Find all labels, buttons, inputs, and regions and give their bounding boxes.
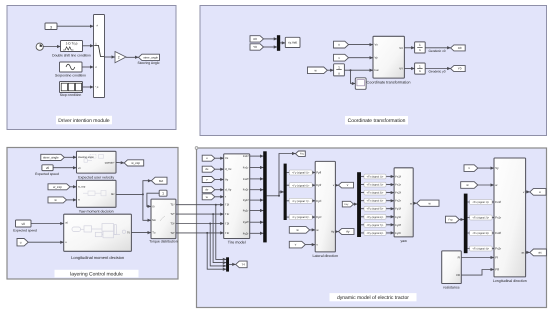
svg-text:T2f: T2f xyxy=(225,222,229,226)
svg-text:Expected speed: Expected speed xyxy=(35,172,59,176)
svg-text:Mz: Mz xyxy=(152,219,156,222)
svg-text:v0: v0 xyxy=(46,166,50,170)
svg-text:<Fy (signal 7)>: <Fy (signal 7)> xyxy=(292,200,310,203)
svg-text:Fyfr: Fyfr xyxy=(316,183,321,187)
svg-text:3: 3 xyxy=(50,26,52,30)
svg-text:steer_angle: steer_angle xyxy=(143,55,158,59)
svg-text:Yaw moment decision: Yaw moment decision xyxy=(79,210,114,214)
svg-text:Fx2f: Fx2f xyxy=(395,191,401,195)
svg-text:Fyfl: Fyfl xyxy=(316,171,321,175)
svg-text:xy.mat: xy.mat xyxy=(288,41,297,45)
svg-text:steer_angle: steer_angle xyxy=(43,156,59,160)
svg-text:Coordinate transformation: Coordinate transformation xyxy=(367,81,411,85)
svg-text:yaw: yaw xyxy=(400,239,407,243)
svg-text:<Fx (signal 4)>: <Fx (signal 4)> xyxy=(472,248,489,251)
svg-text:T4: T4 xyxy=(241,263,245,267)
svg-text:Geodetic x0: Geodetic x0 xyxy=(428,49,445,53)
svg-text:Fy1r: Fy1r xyxy=(243,209,249,213)
svg-text:Expected speed: Expected speed xyxy=(13,229,37,233)
svg-text:Vy: Vy xyxy=(495,166,499,170)
svg-text:MZ: MZ xyxy=(159,179,163,183)
svg-text:Fx1f: Fx1f xyxy=(243,154,249,158)
svg-text:Tu: Tu xyxy=(152,232,156,235)
svg-text:Fy2r: Fy2r xyxy=(395,231,401,235)
svg-text:Fx1r: Fx1r xyxy=(395,183,401,187)
svg-text:Fx1f: Fx1f xyxy=(395,175,401,179)
svg-text:2: 2 xyxy=(118,55,120,59)
svg-text:Coordinate transformation: Coordinate transformation xyxy=(348,118,406,124)
svg-text:Lateral direction: Lateral direction xyxy=(313,254,339,258)
svg-text:T1*: T1* xyxy=(170,204,174,207)
svg-text:d_Vy: d_Vy xyxy=(225,188,232,192)
svg-text:Fxy: Fxy xyxy=(449,218,454,221)
svg-text:w_exp: w_exp xyxy=(78,185,86,188)
svg-text:VX: VX xyxy=(399,46,403,50)
svg-text:<Fy (signal 7)>: <Fy (signal 7)> xyxy=(367,224,384,227)
svg-text:Fy1r: Fy1r xyxy=(395,215,401,219)
svg-text:FR: FR xyxy=(495,268,499,272)
svg-text:v0: v0 xyxy=(22,222,26,226)
svg-text:1: 1 xyxy=(162,192,164,196)
svg-text:du: du xyxy=(205,167,209,171)
svg-text:w_exp: w_exp xyxy=(131,161,140,165)
svg-text:Fx1f: Fx1f xyxy=(495,200,501,204)
svg-text:w_exp: w_exp xyxy=(53,185,62,189)
svg-text:1: 1 xyxy=(419,43,421,47)
svg-text:Fx2r: Fx2r xyxy=(243,188,249,192)
svg-text:<Fy (signal 5)>: <Fy (signal 5)> xyxy=(292,172,310,175)
svg-text:Fy2f: Fy2f xyxy=(395,223,401,227)
svg-text:Ff: Ff xyxy=(495,256,498,260)
svg-text:yawrate*: yawrate* xyxy=(105,161,115,164)
svg-text:1: 1 xyxy=(338,65,340,69)
svg-text:w: w xyxy=(410,203,412,206)
svg-text:dynamic model of electric trac: dynamic model of electric tractor xyxy=(337,295,409,301)
svg-text:Fy1f: Fy1f xyxy=(243,198,249,202)
svg-text:1: 1 xyxy=(419,64,421,68)
svg-text:<Fx (signal 2)>: <Fx (signal 2)> xyxy=(472,217,489,220)
svg-text:Ay: Ay xyxy=(346,230,350,234)
svg-text:<Fy (signal 8)>: <Fy (signal 8)> xyxy=(292,216,310,219)
svg-text:<Fx (signal 3)>: <Fx (signal 3)> xyxy=(367,192,384,195)
svg-text:ax: ax xyxy=(538,251,542,255)
svg-text:Fai: Fai xyxy=(375,68,379,72)
svg-text:layering Control module: layering Control module xyxy=(70,271,123,277)
svg-text:Ff: Ff xyxy=(458,256,461,259)
svg-text:<Fy (signal 6)>: <Fy (signal 6)> xyxy=(367,216,384,219)
svg-text:X0: X0 xyxy=(458,46,462,50)
svg-text:T2*: T2* xyxy=(170,213,174,216)
svg-text:T1r: T1r xyxy=(225,212,229,216)
svg-text:Tire model: Tire model xyxy=(228,241,246,245)
svg-text:resistance: resistance xyxy=(443,286,459,290)
svg-text:Step condition: Step condition xyxy=(60,93,82,97)
svg-text:1-D T(u): 1-D T(u) xyxy=(66,42,78,46)
svg-text:<Fy (signal 5)>: <Fy (signal 5)> xyxy=(367,208,384,211)
svg-text:w: w xyxy=(78,199,80,202)
svg-text:Fx2f: Fx2f xyxy=(243,177,249,181)
svg-text:*,3: *,3 xyxy=(95,86,99,89)
svg-text:Fyrl: Fyrl xyxy=(316,199,321,203)
svg-text:Fx2f: Fx2f xyxy=(495,231,501,235)
svg-text:Fx2r: Fx2r xyxy=(395,199,401,203)
svg-text:<Fy (signal 8)>: <Fy (signal 8)> xyxy=(367,232,384,235)
svg-text:Geodetic y0: Geodetic y0 xyxy=(428,69,445,73)
svg-text:<Fx (signal 1)>: <Fx (signal 1)> xyxy=(472,201,489,204)
svg-text:FR: FR xyxy=(456,274,460,277)
svg-text:Fy2f: Fy2f xyxy=(243,220,249,224)
svg-text:r: r xyxy=(225,195,226,199)
svg-text:<Fx (signal 1)>: <Fx (signal 1)> xyxy=(367,176,384,179)
svg-text:Y0: Y0 xyxy=(253,45,257,49)
svg-text:<Fx (signal 4)>: <Fx (signal 4)> xyxy=(367,200,384,203)
svg-text:X0: X0 xyxy=(253,37,257,41)
svg-text:<Fy (signal 6)>: <Fy (signal 6)> xyxy=(292,184,310,187)
svg-text:Fy1f: Fy1f xyxy=(395,207,401,211)
svg-text:Double shift line condition: Double shift line condition xyxy=(52,54,91,58)
svg-text:Fx1r: Fx1r xyxy=(495,216,501,220)
svg-text:T2r: T2r xyxy=(225,231,229,235)
svg-text:Fyrr: Fyrr xyxy=(316,215,321,219)
svg-text:Torque distribution: Torque distribution xyxy=(149,240,178,244)
svg-text:Driver intention module: Driver intention module xyxy=(58,118,110,124)
svg-text:Expected user velocity: Expected user velocity xyxy=(78,175,114,179)
svg-text:Fx1r: Fx1r xyxy=(243,166,249,170)
svg-text:VY: VY xyxy=(399,67,403,71)
svg-text:Fx2r: Fx2r xyxy=(495,247,501,251)
svg-text:<Fx (signal 3)>: <Fx (signal 3)> xyxy=(472,232,489,235)
svg-text:Serpentine condition: Serpentine condition xyxy=(55,73,86,77)
svg-text:T4*: T4* xyxy=(170,232,174,235)
svg-text:Longitudinal moment decision: Longitudinal moment decision xyxy=(71,255,124,260)
svg-text:Y0: Y0 xyxy=(458,67,462,71)
svg-text:d_Vx: d_Vx xyxy=(225,167,232,171)
svg-text:<Fx (signal 2)>: <Fx (signal 2)> xyxy=(367,184,384,187)
svg-text:T1f: T1f xyxy=(225,203,229,207)
svg-text:T3*: T3* xyxy=(170,222,174,225)
svg-text:Fy2r: Fy2r xyxy=(243,231,249,235)
svg-text:Longitudinal direction: Longitudinal direction xyxy=(493,279,527,283)
svg-text:Steering Angle: Steering Angle xyxy=(137,61,159,65)
